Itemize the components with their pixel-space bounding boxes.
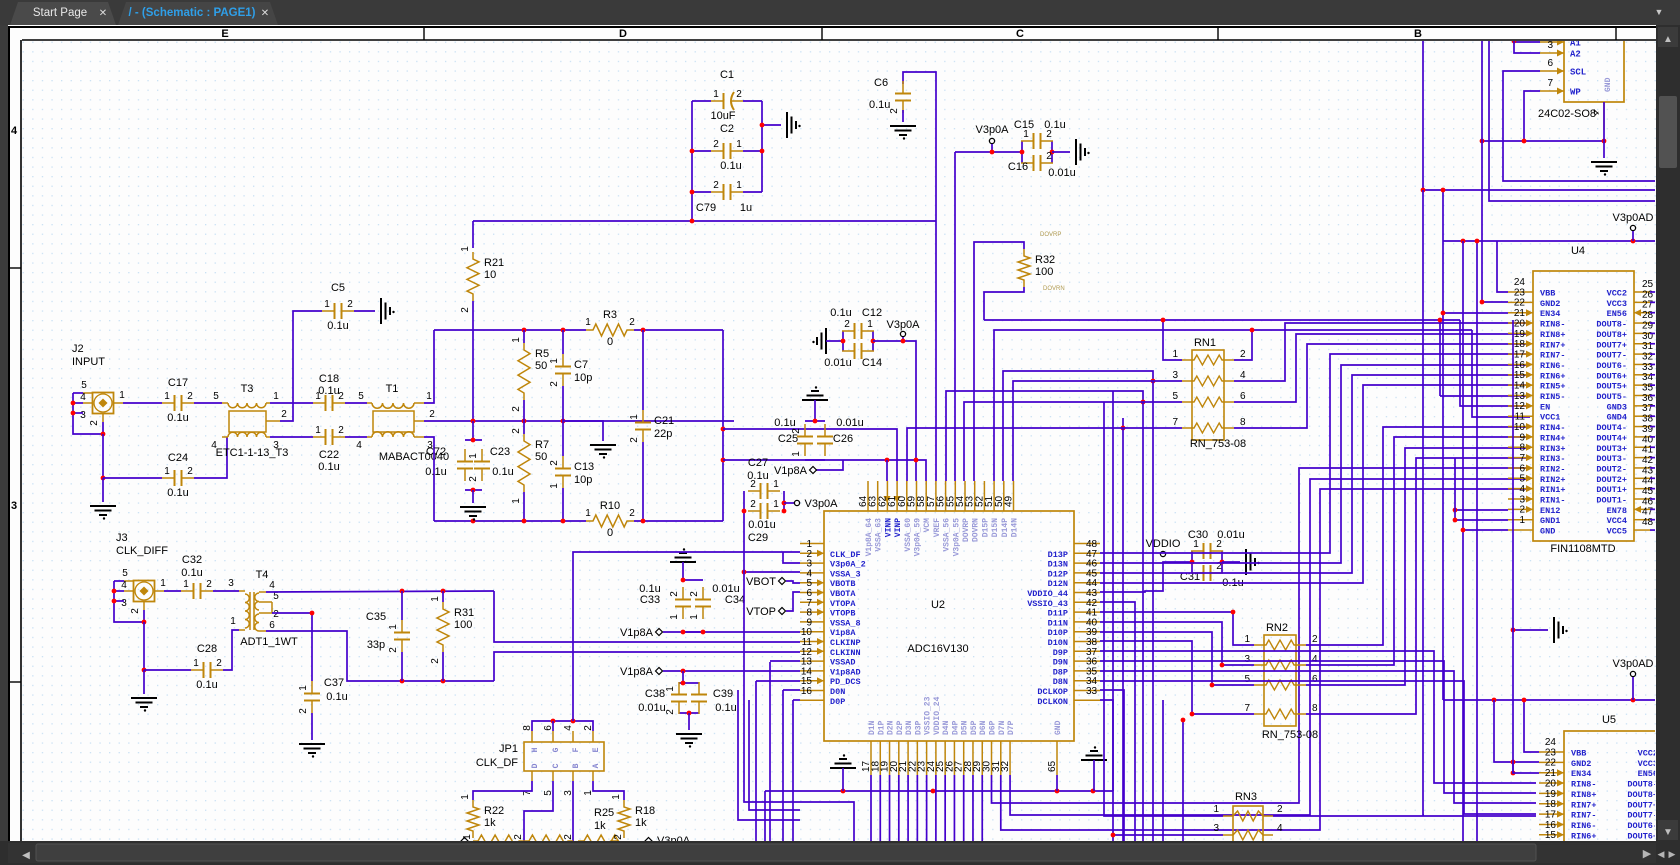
resistor R10 — [585, 500, 635, 539]
junction — [901, 339, 906, 344]
junction — [1421, 188, 1426, 193]
wire — [1463, 529, 1508, 531]
wire — [1494, 700, 1539, 762]
svg-text:D11P: D11P — [1048, 609, 1068, 619]
svg-text:DOUT5+: DOUT5+ — [1596, 382, 1627, 392]
svg-text:VSSAD: VSSAD — [830, 658, 856, 668]
svg-text:DOUT8+: DOUT8+ — [1627, 790, 1658, 800]
net flag (bottom left, cut) — [461, 838, 468, 845]
svg-text:R5: R5 — [535, 348, 549, 360]
ground (C15/C16) — [1076, 139, 1090, 165]
svg-text:D3N: D3N — [905, 720, 914, 735]
svg-text:2: 2 — [665, 709, 676, 715]
wire — [1100, 365, 1530, 563]
junction — [782, 501, 787, 506]
junction — [142, 668, 147, 673]
resistor R22 — [460, 794, 504, 838]
svg-text:R10: R10 — [600, 500, 620, 512]
wire — [1650, 477, 1656, 479]
wire — [907, 428, 1182, 481]
wire — [472, 421, 474, 440]
junction — [760, 123, 765, 128]
net flag V3p0AD (bottom) — [1613, 658, 1654, 677]
net flag VDDIO — [1146, 538, 1181, 557]
svg-text:C2: C2 — [720, 123, 734, 135]
svg-text:◀: ◀ — [1658, 849, 1665, 859]
svg-text:1: 1 — [511, 498, 522, 504]
wire — [1514, 41, 1540, 53]
svg-text:1: 1 — [183, 579, 189, 590]
wire — [1513, 762, 1539, 773]
svg-text:GND3: GND3 — [1607, 402, 1627, 412]
capacitor C35 — [388, 620, 410, 653]
svg-text:0: 0 — [607, 527, 613, 539]
wire — [1650, 405, 1656, 407]
wire (pin 65 GND) — [1056, 775, 1058, 791]
svg-text:VSSIO_43: VSSIO_43 — [1027, 599, 1068, 609]
svg-text:C12: C12 — [862, 307, 882, 319]
svg-text:DOUT2-: DOUT2- — [1596, 464, 1627, 474]
svg-text:2: 2 — [187, 391, 193, 402]
svg-text:4: 4 — [11, 125, 18, 137]
svg-text:RIN5-: RIN5- — [1540, 392, 1566, 402]
svg-text:C24: C24 — [168, 452, 188, 464]
svg-text:1: 1 — [164, 466, 170, 477]
wire — [1650, 374, 1656, 376]
svg-text:C29: C29 — [748, 532, 768, 544]
svg-text:DOVRN: DOVRN — [972, 518, 981, 542]
wire — [434, 520, 586, 522]
junction — [1231, 610, 1236, 615]
wire — [434, 329, 586, 331]
junction — [522, 419, 527, 424]
capacitor C25 — [791, 424, 813, 457]
svg-text:VREF: VREF — [933, 518, 942, 537]
svg-text:5: 5 — [1244, 674, 1250, 685]
svg-text:5: 5 — [358, 391, 364, 402]
svg-text:1: 1 — [549, 358, 560, 364]
wire — [692, 191, 711, 193]
svg-text:5: 5 — [1519, 474, 1525, 485]
svg-text:1: 1 — [611, 794, 622, 800]
junction — [400, 679, 405, 684]
resistor R18 — [611, 794, 655, 838]
svg-text:VSSA_63: VSSA_63 — [875, 518, 884, 552]
net flag V1p8A (lower) — [620, 666, 663, 678]
wire — [1122, 428, 1124, 841]
wire — [114, 600, 124, 602]
wire — [953, 775, 955, 841]
wire — [1650, 291, 1656, 293]
svg-text:5: 5 — [81, 380, 87, 391]
svg-text:C35: C35 — [366, 611, 386, 623]
junction — [687, 711, 692, 716]
svg-text:46: 46 — [1642, 496, 1654, 507]
vertical scrollbar — [1656, 25, 1680, 841]
resistor R7 — [511, 428, 549, 504]
svg-text:0.1u: 0.1u — [167, 412, 188, 424]
wire — [1122, 418, 1124, 428]
wire — [898, 775, 900, 841]
junction — [1461, 528, 1466, 533]
junction — [1511, 760, 1516, 765]
transformer T1 — [356, 383, 449, 463]
svg-text:4: 4 — [1519, 484, 1525, 495]
wire — [743, 150, 762, 152]
svg-text:RIN3+: RIN3+ — [1540, 444, 1566, 454]
svg-text:47: 47 — [1642, 507, 1654, 518]
capacitor C27 — [748, 479, 780, 499]
wire — [1650, 332, 1656, 334]
svg-text:EN56: EN56 — [1607, 309, 1627, 319]
wire — [723, 460, 926, 481]
wire — [270, 402, 313, 404]
junction — [885, 458, 890, 463]
wire — [1100, 562, 1192, 592]
ground (mid) — [590, 445, 616, 459]
wire — [1650, 436, 1656, 438]
svg-text:2: 2 — [629, 508, 635, 519]
svg-text:DOUT7+: DOUT7+ — [1596, 340, 1627, 350]
svg-text:1k: 1k — [635, 817, 647, 829]
svg-text:V1p8A: V1p8A — [774, 465, 808, 477]
svg-text:5: 5 — [1172, 391, 1178, 402]
svg-text:D10P: D10P — [1048, 628, 1068, 638]
svg-text:2: 2 — [629, 317, 635, 328]
capacitor C29 — [748, 499, 780, 519]
svg-text:VBOTB: VBOTB — [830, 579, 856, 589]
resistor R23 (bottom, cut) — [462, 834, 524, 847]
junction — [681, 681, 686, 686]
wire — [743, 100, 762, 102]
svg-text:2: 2 — [468, 476, 479, 482]
wire — [814, 400, 816, 421]
svg-text:7: 7 — [1172, 417, 1178, 428]
junction — [471, 438, 476, 443]
svg-text:H: H — [531, 747, 540, 752]
svg-text:RN2: RN2 — [1266, 622, 1288, 634]
svg-text:B: B — [1414, 28, 1422, 40]
svg-text:2: 2 — [750, 499, 756, 510]
svg-text:1: 1 — [324, 299, 330, 310]
svg-text:D12N: D12N — [1048, 579, 1068, 589]
wire — [1442, 190, 1444, 700]
svg-text:4: 4 — [1277, 823, 1283, 834]
svg-text:2: 2 — [511, 406, 522, 412]
wire — [1472, 330, 1530, 417]
svg-text:DOUT6+: DOUT6+ — [1596, 371, 1627, 381]
svg-text:5: 5 — [213, 391, 219, 402]
net flag V3p0A (mid) — [886, 319, 920, 337]
wire — [764, 791, 766, 841]
ground (bottom left) — [830, 754, 856, 768]
junction — [441, 589, 446, 594]
svg-text:DOVRN: DOVRN — [1043, 286, 1065, 292]
svg-text:0.1u: 0.1u — [747, 470, 768, 482]
svg-text:E: E — [221, 28, 228, 40]
wire — [761, 101, 763, 192]
svg-text:U4: U4 — [1571, 245, 1585, 257]
svg-text:V3p0A: V3p0A — [975, 124, 1009, 136]
capacitor C23 — [468, 449, 490, 482]
svg-text:1: 1 — [1244, 634, 1250, 645]
ground (C5) — [381, 298, 395, 324]
wire — [562, 421, 564, 456]
IC U5 FIN1108MTD — [1539, 714, 1680, 865]
svg-text:C34: C34 — [725, 594, 745, 606]
wire (down) — [102, 434, 104, 478]
svg-text:3: 3 — [1213, 823, 1219, 834]
wire — [1455, 509, 1508, 511]
wire (D7P) — [1010, 479, 1530, 815]
svg-text:16: 16 — [1545, 820, 1557, 831]
junction — [1480, 300, 1485, 305]
svg-text:C23: C23 — [490, 446, 510, 458]
svg-text:1: 1 — [585, 317, 591, 328]
svg-text:VSSA_8: VSSA_8 — [830, 618, 861, 628]
wire — [532, 721, 593, 731]
junction — [813, 419, 818, 424]
svg-text:8: 8 — [1240, 417, 1246, 428]
svg-text:50: 50 — [535, 360, 547, 372]
svg-text:6: 6 — [1240, 391, 1246, 402]
junction — [690, 149, 695, 154]
wire — [955, 151, 1022, 153]
wire — [886, 460, 888, 481]
wire — [270, 436, 313, 438]
wire — [972, 775, 974, 841]
wire — [114, 580, 124, 582]
net flag V1p8A (left) — [620, 627, 663, 639]
wire — [762, 124, 781, 126]
svg-text:22: 22 — [1514, 298, 1526, 309]
capacitor C79 — [696, 180, 752, 214]
junction — [841, 789, 846, 794]
svg-text:VDDIO_24: VDDIO_24 — [933, 696, 942, 735]
wire — [494, 591, 800, 642]
wire (R21 to bus) — [472, 301, 474, 421]
wire — [1182, 720, 1184, 841]
ground (C6) — [890, 126, 916, 140]
wire — [792, 700, 794, 841]
wire — [1112, 391, 1114, 841]
svg-text:28: 28 — [1642, 310, 1654, 321]
svg-text:4: 4 — [269, 580, 275, 591]
wire — [562, 488, 564, 521]
capacitor C28 — [191, 643, 223, 691]
wire (to ground) — [102, 478, 104, 502]
wire — [1113, 834, 1223, 836]
transformer T3 — [211, 383, 288, 459]
capacitor C5 — [322, 282, 354, 332]
svg-text:C26: C26 — [833, 433, 853, 445]
wire — [1100, 700, 1113, 791]
svg-text:4: 4 — [356, 440, 362, 451]
wire — [424, 330, 434, 403]
svg-text:GND: GND — [1540, 527, 1555, 537]
svg-text:ADT1_1WT: ADT1_1WT — [240, 636, 298, 648]
svg-text:D8N: D8N — [1053, 677, 1068, 687]
wire (to ground) — [472, 490, 474, 503]
junction — [522, 328, 527, 333]
svg-text:2: 2 — [187, 466, 193, 477]
wire — [926, 775, 928, 841]
svg-text:DOUT7-: DOUT7- — [1627, 811, 1658, 821]
svg-text:10p: 10p — [574, 372, 592, 384]
svg-text:1: 1 — [426, 391, 432, 402]
IC U4 FIN1108MTD — [1508, 245, 1654, 555]
wire (R3 out) — [634, 329, 723, 331]
svg-text:1: 1 — [585, 508, 591, 519]
svg-text:C33: C33 — [640, 594, 660, 606]
capacitor pair C27 C29 — [744, 490, 784, 492]
svg-text:12: 12 — [1514, 401, 1526, 412]
svg-text:VCC5: VCC5 — [1607, 527, 1627, 537]
svg-text:0.01u: 0.01u — [1048, 167, 1076, 179]
wire (down) — [143, 622, 145, 670]
capacitor pair C15 C16 rails — [1022, 141, 1052, 163]
svg-text:GND: GND — [1054, 720, 1063, 735]
svg-text:C14: C14 — [862, 357, 882, 369]
svg-text:C25: C25 — [778, 433, 798, 445]
svg-text:RIN7+: RIN7+ — [1540, 340, 1566, 350]
wire — [424, 437, 434, 521]
svg-text:1: 1 — [791, 451, 802, 457]
svg-text:23: 23 — [1514, 287, 1526, 298]
svg-text:2: 2 — [273, 609, 279, 620]
wire — [1306, 437, 1530, 665]
wire (J3 pin1 to C32) — [164, 590, 181, 592]
svg-text:R22: R22 — [484, 805, 504, 817]
wire — [424, 420, 734, 422]
wire — [1440, 395, 1530, 397]
svg-text:36: 36 — [1642, 393, 1654, 404]
svg-text:19: 19 — [1514, 329, 1526, 340]
transformer T4 — [228, 569, 298, 648]
wire — [272, 613, 312, 681]
wire — [1650, 519, 1656, 521]
ground (C33/C34) — [670, 548, 696, 562]
svg-text:RIN7-: RIN7- — [1540, 351, 1566, 361]
junction — [1631, 239, 1636, 244]
wire — [1100, 651, 1536, 783]
svg-text:D5P: D5P — [970, 720, 979, 735]
svg-text:2: 2 — [1240, 349, 1246, 360]
svg-text:C28: C28 — [197, 643, 217, 655]
wire — [984, 287, 1024, 320]
svg-text:10uF: 10uF — [710, 110, 735, 122]
svg-text:22: 22 — [1545, 758, 1557, 769]
wire — [816, 460, 843, 470]
svg-text:VTOP: VTOP — [746, 606, 776, 618]
svg-text:3: 3 — [80, 410, 86, 421]
svg-text:D13P: D13P — [1048, 550, 1068, 560]
svg-text:18: 18 — [1514, 339, 1526, 350]
capacitor C21 — [629, 410, 651, 443]
svg-text:V1p8A_64: V1p8A_64 — [865, 518, 874, 557]
svg-text:33: 33 — [1086, 686, 1098, 697]
wire — [1439, 320, 1441, 396]
svg-text:D9P: D9P — [1053, 648, 1068, 658]
svg-text:17: 17 — [1545, 809, 1557, 820]
wire (to ground) — [1603, 141, 1605, 158]
wire — [1100, 385, 1530, 583]
svg-text:U5: U5 — [1602, 714, 1616, 726]
svg-text:RIN6+: RIN6+ — [1540, 371, 1566, 381]
wire — [903, 72, 936, 481]
resistor R21 — [460, 246, 504, 313]
wire — [345, 436, 367, 438]
svg-text:DOUT8-: DOUT8- — [1627, 780, 1658, 790]
wire — [1306, 458, 1530, 714]
wire — [743, 191, 762, 193]
svg-text:30: 30 — [1642, 331, 1654, 342]
ground (C38/C39) — [676, 734, 702, 748]
svg-text:DOUT3+: DOUT3+ — [1596, 444, 1627, 454]
junction — [1522, 698, 1527, 703]
svg-text:D: D — [619, 28, 627, 40]
wire — [1603, 102, 1605, 141]
wire — [691, 101, 693, 221]
svg-text:▼: ▼ — [1663, 827, 1673, 838]
junction — [1602, 139, 1607, 144]
svg-text:1: 1 — [468, 453, 479, 459]
ground (J3) — [131, 698, 157, 712]
junction — [561, 419, 566, 424]
connector J2 — [80, 380, 125, 426]
wire — [663, 631, 800, 633]
wire — [1443, 240, 1656, 242]
wire — [1650, 508, 1656, 510]
wire — [442, 591, 444, 602]
capacitor C33 — [669, 587, 691, 620]
svg-text:DOUT1+: DOUT1+ — [1596, 485, 1627, 495]
wire — [345, 402, 367, 404]
wire — [1650, 322, 1656, 324]
svg-text:3: 3 — [228, 578, 234, 589]
junction — [760, 149, 765, 154]
svg-text:V1p8A: V1p8A — [620, 627, 654, 639]
wire — [1234, 330, 1252, 360]
svg-text:7: 7 — [1519, 453, 1525, 464]
svg-text:2: 2 — [1046, 151, 1052, 162]
wire — [879, 775, 881, 841]
svg-text:C13: C13 — [574, 461, 594, 473]
svg-text:42: 42 — [1642, 455, 1654, 466]
capacitor C34 — [689, 587, 711, 620]
wire — [523, 330, 525, 343]
svg-text:2: 2 — [549, 381, 560, 387]
capacitor C38 — [665, 682, 687, 715]
svg-text:33p: 33p — [367, 639, 385, 651]
svg-text:VSSA_3: VSSA_3 — [830, 569, 861, 579]
svg-text:44: 44 — [1642, 476, 1654, 487]
svg-text:3: 3 — [1244, 654, 1250, 665]
svg-text:1: 1 — [1213, 804, 1219, 815]
junction — [1151, 379, 1156, 384]
wire — [783, 491, 785, 511]
svg-text:C16: C16 — [1008, 161, 1028, 173]
junction — [701, 630, 706, 635]
svg-text:1: 1 — [460, 246, 471, 252]
svg-text:1: 1 — [669, 614, 680, 620]
junction — [871, 339, 876, 344]
wire — [266, 591, 494, 592]
wire (ground stem) — [1093, 760, 1095, 791]
svg-text:D3P: D3P — [914, 720, 923, 735]
wire — [1497, 241, 1508, 292]
svg-text:VTOPA: VTOPA — [830, 599, 856, 609]
